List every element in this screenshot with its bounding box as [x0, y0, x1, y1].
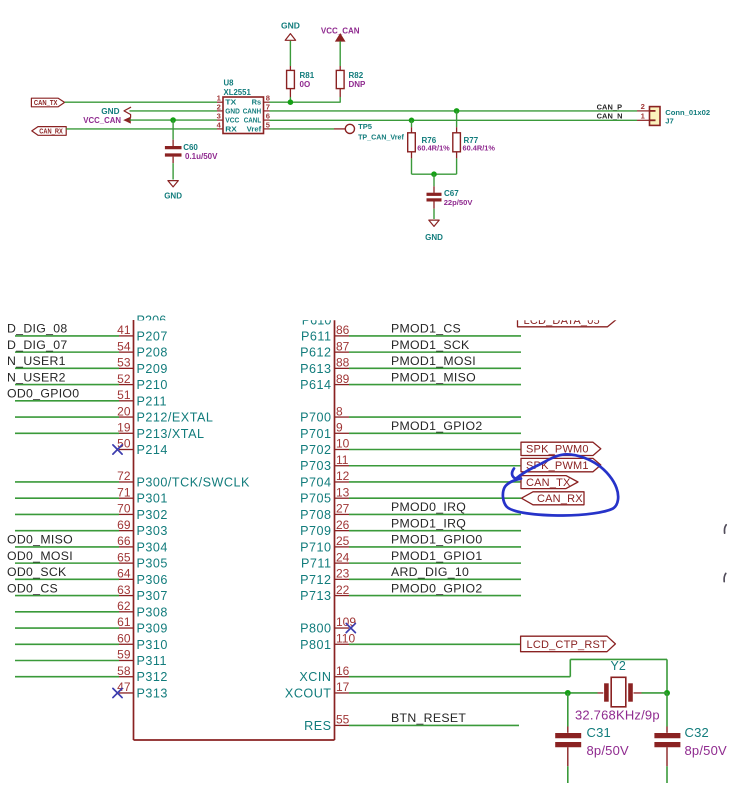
- MCU left pin 53 P209: [7, 354, 168, 376]
- MCU left pin 62 P308: [15, 599, 168, 619]
- svg-text:65: 65: [117, 550, 131, 564]
- svg-text:C67: C67: [444, 189, 459, 198]
- MCU right pin 89 P614: [300, 370, 521, 392]
- U8 pin 7 CANH: [243, 102, 270, 115]
- svg-text:TX: TX: [225, 98, 236, 107]
- svg-text:110: 110: [336, 631, 355, 645]
- svg-text:OD0_GPIO0: OD0_GPIO0: [7, 387, 79, 401]
- stray pen tick upper right: [724, 525, 726, 533]
- MCU right pin 24 P711: [301, 549, 521, 571]
- U8 pin 1 TX: [217, 94, 237, 107]
- svg-text:89: 89: [336, 372, 350, 386]
- svg-text:26: 26: [336, 518, 350, 532]
- svg-text:RX: RX: [225, 124, 237, 133]
- MCU left pin 51 P211: [7, 387, 167, 409]
- svg-text:PMOD1_GPIO0: PMOD1_GPIO0: [391, 533, 482, 547]
- svg-text:P300/TCK/SWCLK: P300/TCK/SWCLK: [137, 475, 250, 489]
- MCU left pin 52 P210: [7, 370, 168, 392]
- hierarchical label CAN_TX (top left): [31, 98, 64, 107]
- ground symbol below C60: [164, 181, 182, 201]
- svg-text:P612: P612: [300, 346, 331, 360]
- svg-text:R82: R82: [349, 71, 364, 80]
- MCU right pin 22 P713: [300, 581, 521, 603]
- MCU left pin 59 P311: [15, 648, 167, 668]
- svg-text:P310: P310: [137, 638, 168, 652]
- hierarchical label SPK_PWM1: [521, 458, 601, 472]
- MCU right pin 86 P611: [301, 322, 521, 344]
- svg-text:109: 109: [336, 615, 356, 629]
- svg-text:P704: P704: [300, 475, 331, 489]
- svg-text:52: 52: [117, 372, 131, 386]
- svg-text:U8: U8: [224, 79, 235, 88]
- svg-text:61: 61: [117, 615, 131, 629]
- svg-text:N_USER2: N_USER2: [7, 370, 66, 384]
- capacitor C32 8p/50V: [654, 693, 727, 783]
- svg-text:P306: P306: [137, 573, 168, 587]
- svg-text:P312: P312: [137, 670, 168, 684]
- svg-text:Y2: Y2: [611, 659, 626, 673]
- svg-text:13: 13: [336, 485, 350, 499]
- ground symbol below C67: [425, 220, 443, 242]
- power symbol VCC_CAN (top, above R82): [321, 26, 360, 70]
- svg-text:C32: C32: [685, 725, 709, 740]
- hierarchical label CAN_TX (MCU): [521, 476, 578, 489]
- wire CANL to J7 pin1: [270, 119, 638, 121]
- svg-text:2: 2: [217, 102, 221, 111]
- svg-text:N_USER1: N_USER1: [7, 354, 66, 368]
- svg-text:P713: P713: [300, 589, 331, 603]
- svg-text:P709: P709: [300, 524, 331, 538]
- svg-text:PMOD1_GPIO1: PMOD1_GPIO1: [391, 549, 482, 563]
- svg-text:C60: C60: [183, 143, 198, 152]
- svg-text:P301: P301: [137, 492, 168, 506]
- svg-text:PMOD1_GPIO2: PMOD1_GPIO2: [391, 419, 482, 433]
- svg-text:3: 3: [217, 112, 221, 121]
- svg-text:62: 62: [117, 599, 131, 613]
- svg-text:P705: P705: [300, 492, 331, 506]
- svg-text:32.768KHz/9p: 32.768KHz/9p: [575, 708, 660, 723]
- MCU right pin 12 P704: [300, 469, 521, 489]
- wire Vref to test point TP5: [270, 128, 346, 130]
- wire VCC_CAN to U8 pin3: [130, 119, 218, 121]
- svg-text:OD0_MOSI: OD0_MOSI: [7, 549, 73, 563]
- U8 pin 8 Rs: [252, 94, 270, 107]
- MCU left pin 63 P307: [7, 581, 168, 603]
- svg-text:87: 87: [336, 339, 350, 353]
- svg-text:86: 86: [336, 323, 350, 337]
- svg-text:60: 60: [117, 631, 131, 645]
- svg-text:27: 27: [336, 502, 350, 516]
- MCU right pin 10 P702: [300, 437, 521, 457]
- MCU right pin 23 P712: [300, 565, 521, 587]
- svg-text:OD0_MISO: OD0_MISO: [7, 533, 73, 547]
- MCU left pin 19 P213/XTAL: [15, 420, 204, 440]
- power label GND (U8 pin2): [101, 107, 130, 117]
- svg-text:LCD_CTP_RST: LCD_CTP_RST: [527, 639, 608, 651]
- junction R81 on Rs wire: [288, 99, 294, 105]
- power symbol GND (top, above R81): [281, 21, 300, 71]
- capacitor C60 0.1u/50V: [165, 120, 218, 179]
- svg-text:0.1u/50V: 0.1u/50V: [185, 152, 218, 161]
- svg-text:8p/50V: 8p/50V: [587, 743, 630, 758]
- svg-text:R81: R81: [300, 71, 315, 80]
- svg-text:P214: P214: [137, 443, 168, 457]
- svg-text:DNP: DNP: [349, 80, 367, 89]
- svg-text:54: 54: [117, 339, 131, 353]
- capacitor C31 8p/50V: [555, 693, 629, 783]
- MCU left pin 72 P300/TCK/SWCLK: [15, 469, 250, 489]
- crystal Y2 32.768KHz/9p: [575, 659, 667, 723]
- svg-text:ARD_DIG_10: ARD_DIG_10: [391, 565, 469, 579]
- resistor R82 DNP: [336, 70, 366, 102]
- wire XCOUT to crystal: [349, 692, 598, 694]
- wire GND to U8 pin2: [130, 110, 218, 112]
- pen annotation circle around CAN_TX/CAN_RX: [503, 454, 618, 515]
- svg-text:69: 69: [117, 518, 131, 532]
- svg-text:8: 8: [266, 94, 270, 103]
- svg-text:8p/50V: 8p/50V: [685, 743, 728, 758]
- svg-text:P710: P710: [300, 540, 331, 554]
- svg-text:P210: P210: [137, 378, 168, 392]
- hierarchical label SPK_PWM0: [521, 442, 601, 455]
- wire U8 Rs to R81/R82: [270, 101, 341, 103]
- svg-text:SPK_PWM0: SPK_PWM0: [526, 444, 589, 456]
- svg-text:VCC_CAN: VCC_CAN: [83, 116, 121, 125]
- svg-text:60.4R/1%: 60.4R/1%: [417, 144, 450, 153]
- svg-text:6: 6: [266, 112, 270, 121]
- svg-text:CAN_TX: CAN_TX: [34, 98, 58, 107]
- svg-text:P212/EXTAL: P212/EXTAL: [137, 411, 214, 425]
- junction C67 tap: [431, 171, 437, 177]
- svg-text:P712: P712: [300, 573, 331, 587]
- svg-text:70: 70: [117, 502, 131, 516]
- svg-text:88: 88: [336, 356, 350, 370]
- MCU left pin 66 P304: [7, 533, 168, 555]
- svg-text:0O: 0O: [300, 80, 311, 89]
- MCU left pin 54 P208: [7, 338, 168, 360]
- wire termination rail R76-R77: [412, 173, 457, 175]
- svg-text:P302: P302: [137, 508, 168, 522]
- hierarchical label CAN_RX (top left): [32, 127, 66, 136]
- MCU left pin 20 P212/EXTAL: [15, 404, 213, 424]
- svg-text:D_DIG_07: D_DIG_07: [7, 338, 68, 352]
- svg-text:P313: P313: [137, 686, 168, 700]
- resistor R81 0O: [287, 70, 315, 102]
- svg-text:CAN_P: CAN_P: [597, 102, 623, 111]
- svg-text:P304: P304: [137, 540, 168, 554]
- svg-text:P613: P613: [300, 362, 331, 376]
- svg-text:CAN_RX: CAN_RX: [39, 127, 63, 136]
- svg-text:10: 10: [336, 437, 350, 451]
- resistor R77 60.4R/1%: [453, 111, 496, 174]
- svg-text:19: 19: [117, 420, 131, 434]
- hierarchical label CAN_RX (MCU): [521, 492, 584, 505]
- MCU right pin 9 P701: [300, 419, 521, 441]
- junction R76 on CANL wire: [409, 118, 415, 124]
- wire CAN_RX to U8 pin4: [66, 128, 217, 130]
- svg-text:P303: P303: [137, 524, 168, 538]
- junction right crystal node: [664, 690, 670, 696]
- svg-text:P213/XTAL: P213/XTAL: [137, 427, 205, 441]
- svg-text:Rs: Rs: [252, 98, 262, 107]
- svg-text:GND: GND: [101, 107, 119, 116]
- svg-text:12: 12: [336, 469, 350, 483]
- pin name P206 (cut fragment at crop): [137, 314, 167, 328]
- svg-text:PMOD1_MOSI: PMOD1_MOSI: [391, 354, 476, 368]
- U8 pin 2 GND: [217, 102, 241, 115]
- svg-text:66: 66: [117, 534, 131, 548]
- svg-text:22: 22: [336, 583, 350, 597]
- svg-text:Vref: Vref: [247, 124, 262, 133]
- MCU left pin 58 P312: [15, 664, 168, 684]
- U8 pin 3 VCC: [217, 112, 240, 125]
- svg-text:58: 58: [117, 664, 131, 678]
- svg-text:P801: P801: [300, 638, 331, 652]
- svg-text:25: 25: [336, 534, 350, 548]
- svg-text:RES: RES: [304, 719, 331, 733]
- svg-text:P611: P611: [301, 329, 331, 343]
- MCU left pin 61 P309: [15, 615, 168, 635]
- MCU right pin 8 P700: [300, 404, 521, 424]
- svg-text:P702: P702: [300, 443, 331, 457]
- hierarchical label LCD_DATA_05 (cut at crop): [518, 313, 616, 327]
- svg-text:TP5: TP5: [358, 122, 373, 131]
- svg-text:7: 7: [266, 102, 270, 111]
- MCU left pin 50 P214: [113, 437, 168, 457]
- svg-text:P208: P208: [137, 346, 168, 360]
- svg-text:72: 72: [117, 469, 131, 483]
- MCU left pin 71 P301: [15, 485, 168, 505]
- wire CAN_TX to U8 pin1: [65, 101, 217, 103]
- svg-text:P700: P700: [300, 411, 331, 425]
- MCU right pin 27 P708: [300, 500, 521, 522]
- MCU left pin 64 P306: [7, 565, 168, 587]
- MCU right pin 16 XCIN: [299, 664, 349, 684]
- MCU right pin 26 P709: [300, 516, 521, 538]
- svg-text:55: 55: [336, 713, 350, 727]
- svg-text:PMOD0_GPIO2: PMOD0_GPIO2: [391, 581, 482, 595]
- wire XCIN to crystal right node: [349, 659, 667, 692]
- svg-text:PMOD0_IRQ: PMOD0_IRQ: [391, 500, 466, 514]
- svg-text:CAN_N: CAN_N: [597, 112, 623, 121]
- svg-text:71: 71: [117, 485, 131, 499]
- svg-text:P309: P309: [137, 622, 168, 636]
- svg-text:OD0_SCK: OD0_SCK: [7, 565, 67, 579]
- svg-text:9: 9: [336, 420, 343, 434]
- svg-text:24: 24: [336, 550, 350, 564]
- svg-text:P207: P207: [137, 329, 168, 343]
- resistor R76 60.4R/1%: [408, 120, 450, 174]
- svg-text:GND: GND: [281, 21, 300, 31]
- MCU left pin 65 P305: [7, 549, 168, 571]
- test point TP5 TP_CAN_Vref: [345, 122, 404, 142]
- svg-text:OD0_CS: OD0_CS: [7, 581, 58, 595]
- MCU right pin 110 P801: [300, 631, 521, 651]
- MCU right pin 17 XCOUT: [285, 680, 350, 700]
- svg-text:D_DIG_08: D_DIG_08: [7, 322, 68, 336]
- svg-text:GND: GND: [225, 106, 240, 115]
- svg-text:PMOD1_SCK: PMOD1_SCK: [391, 338, 470, 352]
- svg-text:20: 20: [117, 404, 131, 418]
- svg-text:GND: GND: [425, 233, 443, 242]
- svg-text:XCIN: XCIN: [299, 670, 331, 684]
- MCU right pin 109 P800: [300, 615, 356, 635]
- U8 pin 5 Vref: [247, 120, 271, 133]
- svg-text:64: 64: [117, 567, 131, 581]
- capacitor C67 22p/50V: [427, 174, 474, 219]
- svg-text:16: 16: [336, 664, 350, 678]
- MCU right pin 88 P613: [300, 354, 521, 376]
- svg-text:PMOD1_CS: PMOD1_CS: [391, 322, 461, 336]
- MCU right pin 11 P703: [300, 453, 521, 473]
- MCU left pin 70 P302: [15, 502, 168, 522]
- wire CANH to J7 pin2: [270, 110, 638, 112]
- svg-text:P703: P703: [300, 459, 331, 473]
- svg-text:CAN_TX: CAN_TX: [526, 477, 571, 489]
- stray pen tick lower right: [724, 573, 726, 581]
- svg-text:P211: P211: [137, 394, 167, 408]
- MCU right pin 13 P705: [300, 485, 521, 505]
- junction R77 on CANH wire: [454, 108, 460, 114]
- svg-text:GND: GND: [164, 191, 182, 200]
- svg-text:J7: J7: [665, 116, 673, 125]
- svg-text:59: 59: [117, 648, 131, 662]
- svg-text:51: 51: [117, 388, 131, 402]
- svg-text:XCOUT: XCOUT: [285, 686, 332, 700]
- svg-text:C31: C31: [587, 725, 611, 740]
- junction on VCC wire (C60 tap): [170, 117, 176, 123]
- svg-text:CANL: CANL: [244, 116, 262, 125]
- svg-text:22p/50V: 22p/50V: [444, 198, 474, 207]
- svg-text:P614: P614: [300, 378, 331, 392]
- svg-text:VCC: VCC: [225, 116, 240, 125]
- connector J7 Conn_01x02: [637, 102, 710, 125]
- svg-text:P800: P800: [300, 622, 331, 636]
- MCU right pin 25 P710: [300, 533, 521, 555]
- svg-text:PMOD1_IRQ: PMOD1_IRQ: [391, 516, 466, 530]
- svg-text:P305: P305: [137, 557, 168, 571]
- svg-text:41: 41: [117, 323, 131, 337]
- svg-text:XL2551: XL2551: [224, 88, 252, 97]
- svg-text:2: 2: [641, 102, 645, 111]
- MCU right pin 87 P612: [300, 338, 521, 360]
- svg-text:17: 17: [336, 680, 350, 694]
- svg-text:53: 53: [117, 356, 131, 370]
- svg-text:60.4R/1%: 60.4R/1%: [463, 144, 496, 153]
- svg-text:63: 63: [117, 583, 131, 597]
- svg-text:P711: P711: [301, 557, 331, 571]
- svg-text:P311: P311: [137, 654, 167, 668]
- svg-text:P307: P307: [137, 589, 168, 603]
- svg-text:P209: P209: [137, 362, 168, 376]
- MCU chip body outline U?: [134, 320, 335, 740]
- svg-text:CANH: CANH: [243, 106, 262, 115]
- svg-text:23: 23: [336, 567, 350, 581]
- power label VCC_CAN (U8 pin3): [83, 116, 131, 125]
- svg-text:TP_CAN_Vref: TP_CAN_Vref: [358, 134, 404, 142]
- svg-text:PMOD1_MISO: PMOD1_MISO: [391, 370, 476, 384]
- IC U8 XL2551 CAN transceiver: [223, 79, 264, 134]
- svg-text:BTN_RESET: BTN_RESET: [391, 711, 466, 725]
- svg-text:P701: P701: [300, 427, 331, 441]
- U8 pin 4 RX: [217, 120, 237, 133]
- hierarchical label LCD_CTP_RST: [521, 636, 616, 652]
- svg-text:11: 11: [336, 453, 349, 467]
- svg-text:P708: P708: [300, 508, 331, 522]
- MCU right pin 55 RES: [304, 711, 519, 733]
- svg-text:P308: P308: [137, 605, 168, 619]
- svg-text:8: 8: [336, 404, 343, 418]
- junction left crystal node: [565, 690, 571, 696]
- U8 pin 6 CANL: [244, 112, 270, 125]
- MCU left pin 69 P303: [15, 518, 168, 538]
- pin name P610 (cut fragment at crop): [302, 314, 332, 328]
- MCU left pin 41 P207: [7, 322, 168, 344]
- MCU left pin 47 P313: [113, 680, 168, 700]
- svg-text:CAN_RX: CAN_RX: [537, 493, 583, 505]
- MCU left pin 60 P310: [15, 631, 168, 651]
